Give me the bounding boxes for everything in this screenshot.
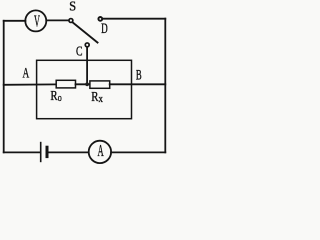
voltmeter V [25, 10, 46, 31]
svg-text:B: B [136, 66, 142, 83]
battery short plate [46, 147, 49, 156]
black box outline [37, 60, 132, 118]
wire A from left edge to R0 [4, 83, 57, 85]
wire D to right edge [102, 18, 165, 20]
svg-text:C: C [76, 43, 83, 59]
switch throw contact C [85, 43, 89, 47]
resistor Rx [90, 81, 110, 88]
svg-text:S: S [69, 0, 76, 14]
wire C down to node [86, 47, 88, 84]
wire voltmeter to switch [46, 19, 69, 21]
wire battery to ammeter [47, 151, 89, 153]
wire between R0 and Rx [76, 83, 90, 85]
svg-text:A: A [98, 141, 105, 160]
svg-text:A: A [23, 64, 30, 81]
switch throw contact D [98, 17, 102, 21]
battery long plate [40, 143, 42, 162]
wire right vertical [164, 19, 166, 153]
wire top-left horizontal [4, 20, 26, 22]
junction node dot [85, 82, 89, 86]
wire Rx to right edge (node B) [110, 83, 166, 85]
svg-text:V: V [34, 11, 40, 30]
switch blade S [73, 23, 98, 43]
switch pole contact S [69, 19, 73, 23]
wire ammeter to bottom right corner [111, 151, 165, 153]
wire left vertical [3, 21, 5, 153]
resistor R0 [56, 80, 75, 88]
svg-text:D: D [101, 20, 108, 37]
ammeter A [89, 141, 111, 163]
wire bottom left to battery [4, 151, 40, 153]
